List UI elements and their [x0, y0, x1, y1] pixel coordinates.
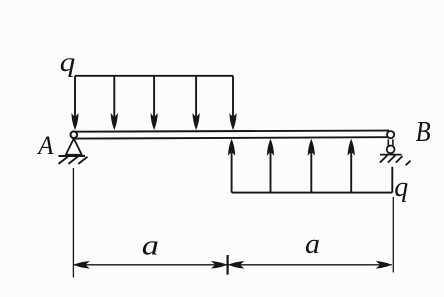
svg-text:a: a: [305, 228, 320, 260]
svg-text:B: B: [416, 116, 431, 148]
svg-text:q: q: [60, 47, 76, 77]
svg-text:a: a: [142, 230, 159, 262]
svg-text:A: A: [36, 130, 54, 160]
svg-text:q: q: [394, 172, 408, 203]
